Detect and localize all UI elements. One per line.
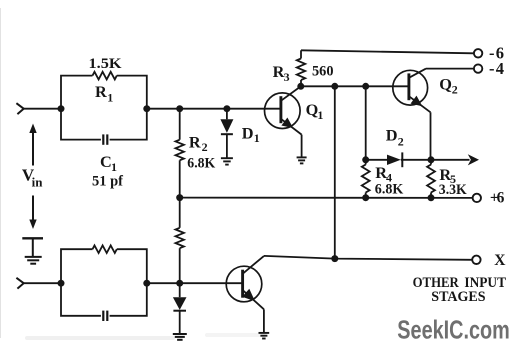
input terminal (upper)	[16, 103, 23, 114]
transistor Q2	[393, 69, 431, 160]
wire lower RC loop	[61, 249, 147, 316]
node R5 bottom	[428, 194, 435, 201]
label 1.5K	[89, 56, 122, 72]
svg-text:D: D	[386, 125, 398, 144]
svg-text:3: 3	[284, 70, 290, 84]
node box1 left	[58, 105, 65, 112]
wire +6 rail	[180, 197, 473, 199]
label Vin	[22, 166, 43, 190]
label STAGES	[431, 288, 485, 305]
svg-text:51 pf: 51 pf	[92, 174, 124, 190]
svg-text:Q: Q	[306, 100, 319, 119]
wire R1/C1 parallel loop	[61, 76, 147, 140]
label X	[494, 252, 506, 269]
svg-text:Q: Q	[439, 75, 452, 94]
label R4	[375, 163, 392, 184]
node X rail / x334	[331, 255, 338, 262]
resistor R5	[427, 160, 435, 198]
svg-text:1: 1	[111, 160, 117, 174]
label -4	[489, 59, 504, 78]
node box2 left	[58, 280, 65, 287]
ground (Q3 emitter)	[259, 333, 270, 339]
svg-text:in: in	[32, 174, 44, 189]
resistor R4	[362, 160, 370, 198]
label R5	[439, 165, 456, 186]
svg-text:R: R	[189, 133, 201, 152]
diode (lower, unlabeled)	[173, 283, 187, 333]
node R4 bottom	[362, 194, 369, 201]
label Q1	[306, 100, 324, 122]
wire lower input line	[24, 282, 242, 284]
node mid resistor bottom	[176, 280, 183, 287]
node bus/x334	[331, 83, 338, 90]
arrow Vin up	[29, 124, 36, 166]
svg-text:-4: -4	[489, 59, 504, 78]
node bus/x366	[362, 83, 369, 90]
diode D1	[220, 109, 233, 158]
arrow output	[468, 154, 479, 165]
ground (D1)	[221, 158, 233, 164]
node box2 right	[143, 280, 150, 287]
label OTHER INPUT	[413, 274, 506, 291]
node R2 bottom	[176, 194, 183, 201]
transistor Q1	[265, 86, 302, 156]
wire x366 vertical	[365, 86, 367, 160]
resistor R1	[93, 72, 117, 80]
input terminal (lower)	[16, 278, 23, 289]
label R3	[273, 62, 290, 84]
label 560	[312, 64, 334, 80]
transistor Q3 (unlabeled)	[226, 256, 264, 332]
ground (Q1 emitter)	[297, 157, 307, 163]
svg-text:2: 2	[398, 134, 404, 148]
resistor R3	[297, 50, 305, 86]
node D2 anode	[362, 156, 369, 163]
node R3 bottom	[297, 83, 304, 90]
resistor (lower box)	[93, 245, 117, 253]
label R1	[95, 82, 113, 104]
wire Q1 collector bus	[301, 85, 409, 87]
terminal +6	[473, 194, 481, 202]
wire -4 lead	[426, 68, 474, 70]
node R2 top	[176, 105, 183, 112]
svg-text:SeekIC.com: SeekIC.com	[397, 314, 510, 344]
label C1	[100, 152, 117, 174]
resistor R2	[176, 109, 184, 198]
diode D2	[366, 152, 470, 167]
wire X rail	[264, 256, 472, 260]
terminal -6	[474, 49, 482, 57]
wire -6 rail	[301, 50, 474, 53]
ground (lower diode)	[173, 334, 187, 340]
svg-text:STAGES: STAGES	[431, 288, 485, 305]
svg-text:2: 2	[452, 83, 458, 97]
node D1 top	[223, 105, 230, 112]
svg-text:1: 1	[317, 108, 323, 122]
svg-text:2: 2	[202, 140, 208, 154]
capacitor (lower box)	[103, 311, 107, 321]
svg-text:1.5K: 1.5K	[89, 56, 122, 72]
svg-text:X: X	[494, 252, 506, 269]
svg-text:6.8K: 6.8K	[187, 155, 215, 171]
label -6	[489, 44, 504, 63]
svg-text:D: D	[242, 124, 254, 143]
svg-text:1: 1	[107, 90, 113, 104]
wire x334 vertical	[334, 86, 336, 258]
terminal X	[472, 256, 480, 264]
label 6.8K (R2)	[187, 155, 215, 171]
svg-text:6.8K: 6.8K	[375, 182, 404, 198]
svg-text:560: 560	[312, 64, 334, 80]
ground (Vin reference)	[22, 238, 43, 263]
node box1 right	[143, 105, 150, 112]
label D2	[386, 125, 404, 148]
resistor (mid, unlabeled)	[176, 198, 184, 284]
svg-text:C: C	[100, 152, 112, 171]
svg-text:+6: +6	[490, 190, 505, 207]
label 3.3K	[439, 182, 467, 198]
terminal -4	[474, 64, 482, 72]
label 51 pf	[92, 174, 124, 190]
svg-text:3.3K: 3.3K	[439, 182, 467, 198]
svg-text:R: R	[95, 82, 107, 101]
label 6.8K (R4)	[375, 182, 404, 198]
label Q2	[439, 75, 458, 97]
capacitor C1	[103, 134, 107, 144]
label +6	[490, 190, 505, 207]
label D1	[242, 124, 260, 146]
node D2 cathode	[428, 156, 435, 163]
wire upper input line	[24, 108, 280, 110]
label R2	[189, 133, 208, 155]
arrow Vin down	[29, 196, 36, 230]
watermark SeekIC.com	[397, 314, 510, 344]
svg-text:1: 1	[254, 131, 260, 145]
